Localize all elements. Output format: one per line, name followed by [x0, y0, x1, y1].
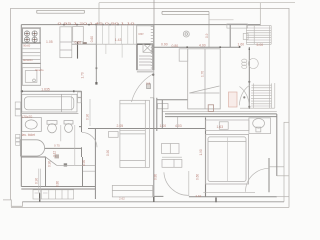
svg-text:0.80: 0.80	[172, 44, 179, 48]
svg-text:0.90: 0.90	[106, 150, 110, 156]
svg-text:0.80: 0.80	[56, 181, 60, 187]
svg-text:1.70: 1.70	[201, 71, 205, 77]
svg-text:0.9: 0.9	[205, 33, 209, 38]
svg-text:1.90: 1.90	[199, 149, 203, 155]
svg-text:lavello: lavello	[35, 68, 44, 72]
svg-text:1.63: 1.63	[217, 125, 224, 129]
svg-text:2.62: 2.62	[119, 197, 125, 201]
svg-text:0.60: 0.60	[196, 174, 200, 180]
svg-text:lavastov.: lavastov.	[23, 58, 33, 62]
svg-text:1.70: 1.70	[81, 72, 85, 78]
svg-text:2.05: 2.05	[117, 124, 124, 128]
svg-text:1.05: 1.05	[46, 40, 53, 44]
svg-text:0.90: 0.90	[86, 114, 90, 120]
svg-text:4.03: 4.03	[175, 124, 182, 128]
svg-text:lav. bidet: lav. bidet	[22, 133, 35, 137]
svg-text:1.43: 1.43	[115, 38, 122, 42]
svg-text:2.12: 2.12	[53, 151, 57, 157]
svg-text:90x60: 90x60	[23, 44, 31, 48]
svg-text:2.62: 2.62	[196, 194, 202, 198]
svg-text:0.90: 0.90	[82, 160, 86, 166]
svg-text:1.635: 1.635	[41, 88, 50, 92]
svg-text:0.95 1.20 1.45 0.90 1.10: 0.95 1.20 1.45 0.90 1.10	[58, 21, 136, 25]
svg-text:0.75: 0.75	[54, 143, 60, 147]
svg-text:0.80: 0.80	[154, 174, 158, 180]
svg-text:0.90: 0.90	[161, 42, 168, 46]
svg-text:170x70: 170x70	[21, 115, 32, 119]
svg-text:0.90: 0.90	[48, 161, 52, 167]
svg-text:0.60: 0.60	[75, 40, 82, 44]
svg-text:1.00: 1.00	[160, 124, 167, 128]
svg-text:0.90: 0.90	[35, 178, 39, 184]
svg-text:0.8: 0.8	[146, 82, 151, 86]
svg-text:4.00: 4.00	[199, 44, 206, 48]
svg-text:RIP.: RIP.	[139, 32, 145, 36]
svg-text:1.60: 1.60	[238, 42, 245, 46]
svg-text:5.00: 5.00	[257, 43, 264, 47]
svg-text:0.60: 0.60	[90, 36, 94, 42]
